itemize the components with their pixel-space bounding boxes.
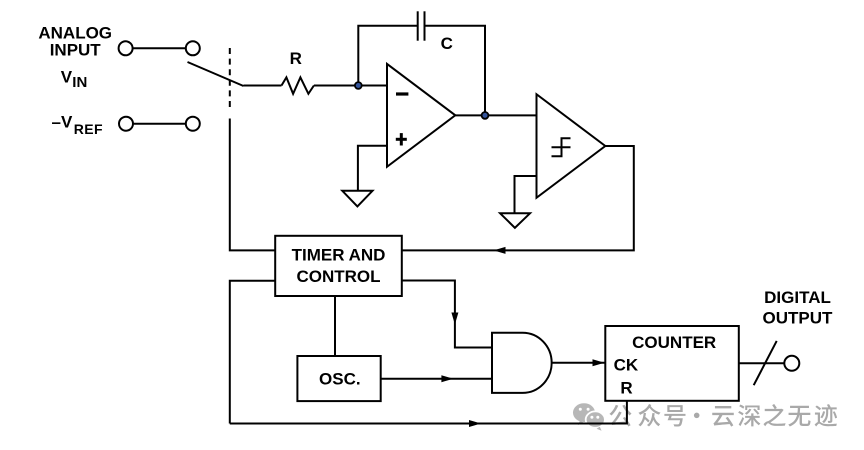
- comparator hysteresis symbol: [552, 138, 571, 156]
- terminal: -VREF left: [119, 117, 133, 131]
- block: COUNTER: [605, 326, 739, 401]
- watermark: wechat icon: [573, 403, 605, 431]
- capacitor C right plate: [424, 11, 426, 40]
- svg-text:V: V: [61, 68, 73, 87]
- node: junction dot at op-amp input: [355, 82, 362, 89]
- svg-text:REF: REF: [74, 121, 103, 137]
- wire: OSC output to AND gate lower input: [381, 378, 492, 380]
- wire: timer bottom to OSC: [334, 296, 336, 356]
- watermark char 号: [664, 405, 685, 426]
- op-amp U1 integrator: [387, 64, 455, 167]
- arrowhead into timer right: [494, 247, 506, 254]
- svg-text:R: R: [290, 49, 302, 68]
- svg-text:INPUT: INPUT: [50, 41, 102, 60]
- terminal: digital output: [784, 356, 799, 371]
- wire: counter output: [739, 362, 785, 364]
- svg-text:IN: IN: [72, 74, 87, 91]
- wire: analog input pair: [133, 47, 186, 49]
- wire: switch control to timer: [230, 119, 275, 251]
- wire: feedback right: [425, 26, 486, 116]
- wire: feedback left vertical: [358, 26, 417, 86]
- svg-text:TIMER AND: TIMER AND: [292, 245, 386, 264]
- svg-text:CONTROL: CONTROL: [296, 267, 380, 286]
- watermark char 公: [609, 405, 631, 427]
- wire: resistor to op-amp inverting input: [314, 85, 387, 87]
- watermark char 云: [712, 406, 734, 427]
- wire: switch to resistor: [244, 85, 282, 87]
- svg-text:OUTPUT: OUTPUT: [763, 309, 834, 328]
- wire: timer right output to AND gate top input: [402, 281, 492, 348]
- terminal: analog input right: [186, 41, 200, 55]
- node: junction dot at op-amp output: [482, 112, 489, 119]
- arrowhead down on timer-AND wire: [451, 313, 458, 325]
- svg-text:–V: –V: [52, 113, 73, 132]
- wire: comparator lower input to ground: [515, 176, 537, 213]
- watermark char 深: [738, 404, 760, 426]
- watermark char 众: [638, 404, 660, 426]
- ground: comparator: [500, 213, 530, 228]
- watermark char 之: [764, 404, 786, 426]
- arrowhead into counter CK: [593, 359, 605, 366]
- node: -VREF label: [52, 113, 104, 138]
- watermark char 迹: [815, 404, 837, 426]
- block: OSC: [297, 356, 380, 401]
- block: TIMER AND CONTROL: [275, 236, 402, 296]
- resistor R: [282, 77, 314, 93]
- switch S1 control dashed line: [229, 48, 231, 111]
- wire: op-amp + input to ground: [358, 146, 387, 191]
- svg-text:CK: CK: [614, 356, 639, 375]
- AND gate G1: [492, 333, 552, 393]
- svg-text:OSC.: OSC.: [319, 369, 361, 388]
- wire: op-amp output to comparator: [455, 114, 536, 116]
- op-amp U1 plus sign: [396, 138, 407, 141]
- comparator U2: [537, 94, 606, 198]
- svg-text:COUNTER: COUNTER: [632, 333, 716, 352]
- capacitor C left plate: [417, 11, 419, 40]
- wire: timer left output to bottom rail: [230, 281, 275, 424]
- op-amp U1 minus sign: [396, 92, 408, 95]
- terminal: analog input left: [119, 41, 133, 55]
- watermark text: [609, 404, 837, 427]
- node: ANALOG INPUT label: [38, 24, 112, 91]
- wire: -VREF pair: [133, 123, 186, 125]
- terminal: -VREF right: [186, 117, 200, 131]
- wire: AND output to counter CK: [552, 362, 605, 364]
- switch S1 arm: [188, 62, 244, 86]
- arrowhead on OSC-AND wire: [441, 375, 453, 382]
- arrowhead on bottom rail: [469, 420, 481, 427]
- svg-text:DIGITAL: DIGITAL: [764, 288, 831, 307]
- watermark char ·: [694, 413, 700, 419]
- svg-text:C: C: [441, 34, 453, 53]
- watermark char 无: [788, 406, 810, 427]
- bus slash on counter output: [754, 341, 777, 385]
- svg-text:R: R: [620, 379, 632, 398]
- wire: bottom rail to counter R: [230, 401, 627, 424]
- wire: comparator output to timer: [403, 146, 634, 250]
- ground: op-amp: [342, 191, 372, 207]
